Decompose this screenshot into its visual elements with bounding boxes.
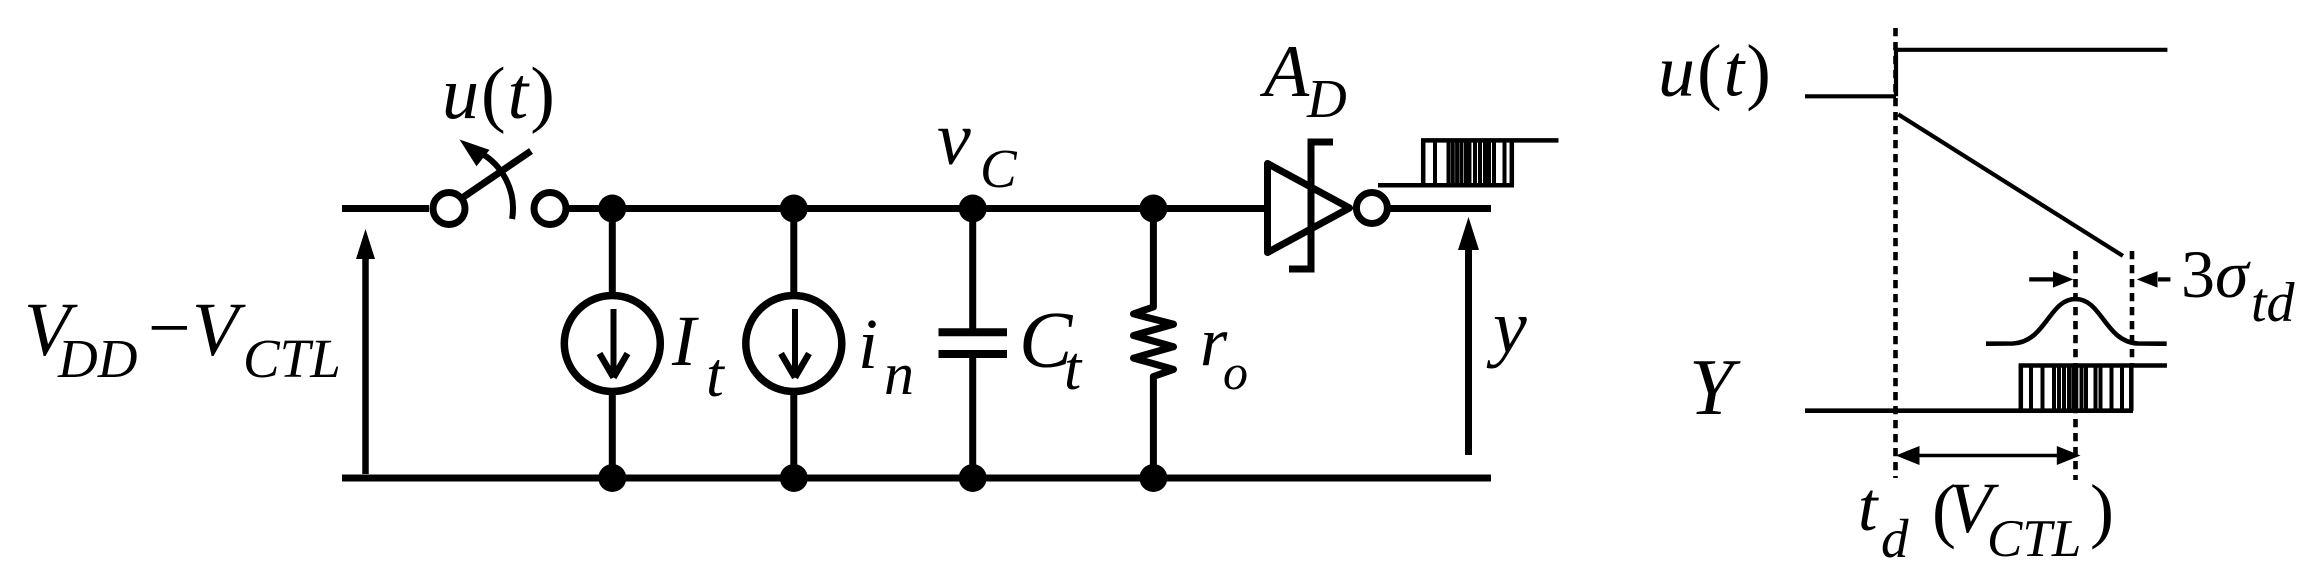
svg-text:CTL: CTL (1987, 510, 2081, 568)
svg-text:u(t): u(t) (1658, 31, 1773, 113)
svg-text:t: t (1064, 335, 1083, 403)
svg-text:t: t (706, 339, 726, 410)
svg-text:): ) (2090, 470, 2114, 550)
svg-text:−: − (148, 286, 191, 370)
svg-text:CTL: CTL (243, 328, 341, 389)
svg-text:td: td (2251, 272, 2296, 334)
svg-text:Y: Y (1689, 344, 1741, 432)
svg-text:d: d (1881, 508, 1909, 569)
svg-text:y: y (1486, 285, 1527, 369)
svg-text:i: i (858, 304, 878, 384)
svg-text:o: o (1223, 344, 1248, 400)
svg-text:I: I (671, 301, 699, 381)
svg-text:3σ: 3σ (2181, 236, 2251, 312)
svg-text:C: C (980, 138, 1018, 199)
svg-text:n: n (884, 341, 914, 407)
svg-text:A: A (1259, 31, 1310, 113)
svg-text:DD: DD (57, 328, 137, 389)
svg-text:u(t): u(t) (442, 53, 557, 135)
svg-text:v: v (937, 97, 971, 181)
svg-text:D: D (1306, 68, 1347, 129)
svg-text:t: t (1858, 469, 1879, 546)
svg-text:V: V (192, 288, 246, 372)
